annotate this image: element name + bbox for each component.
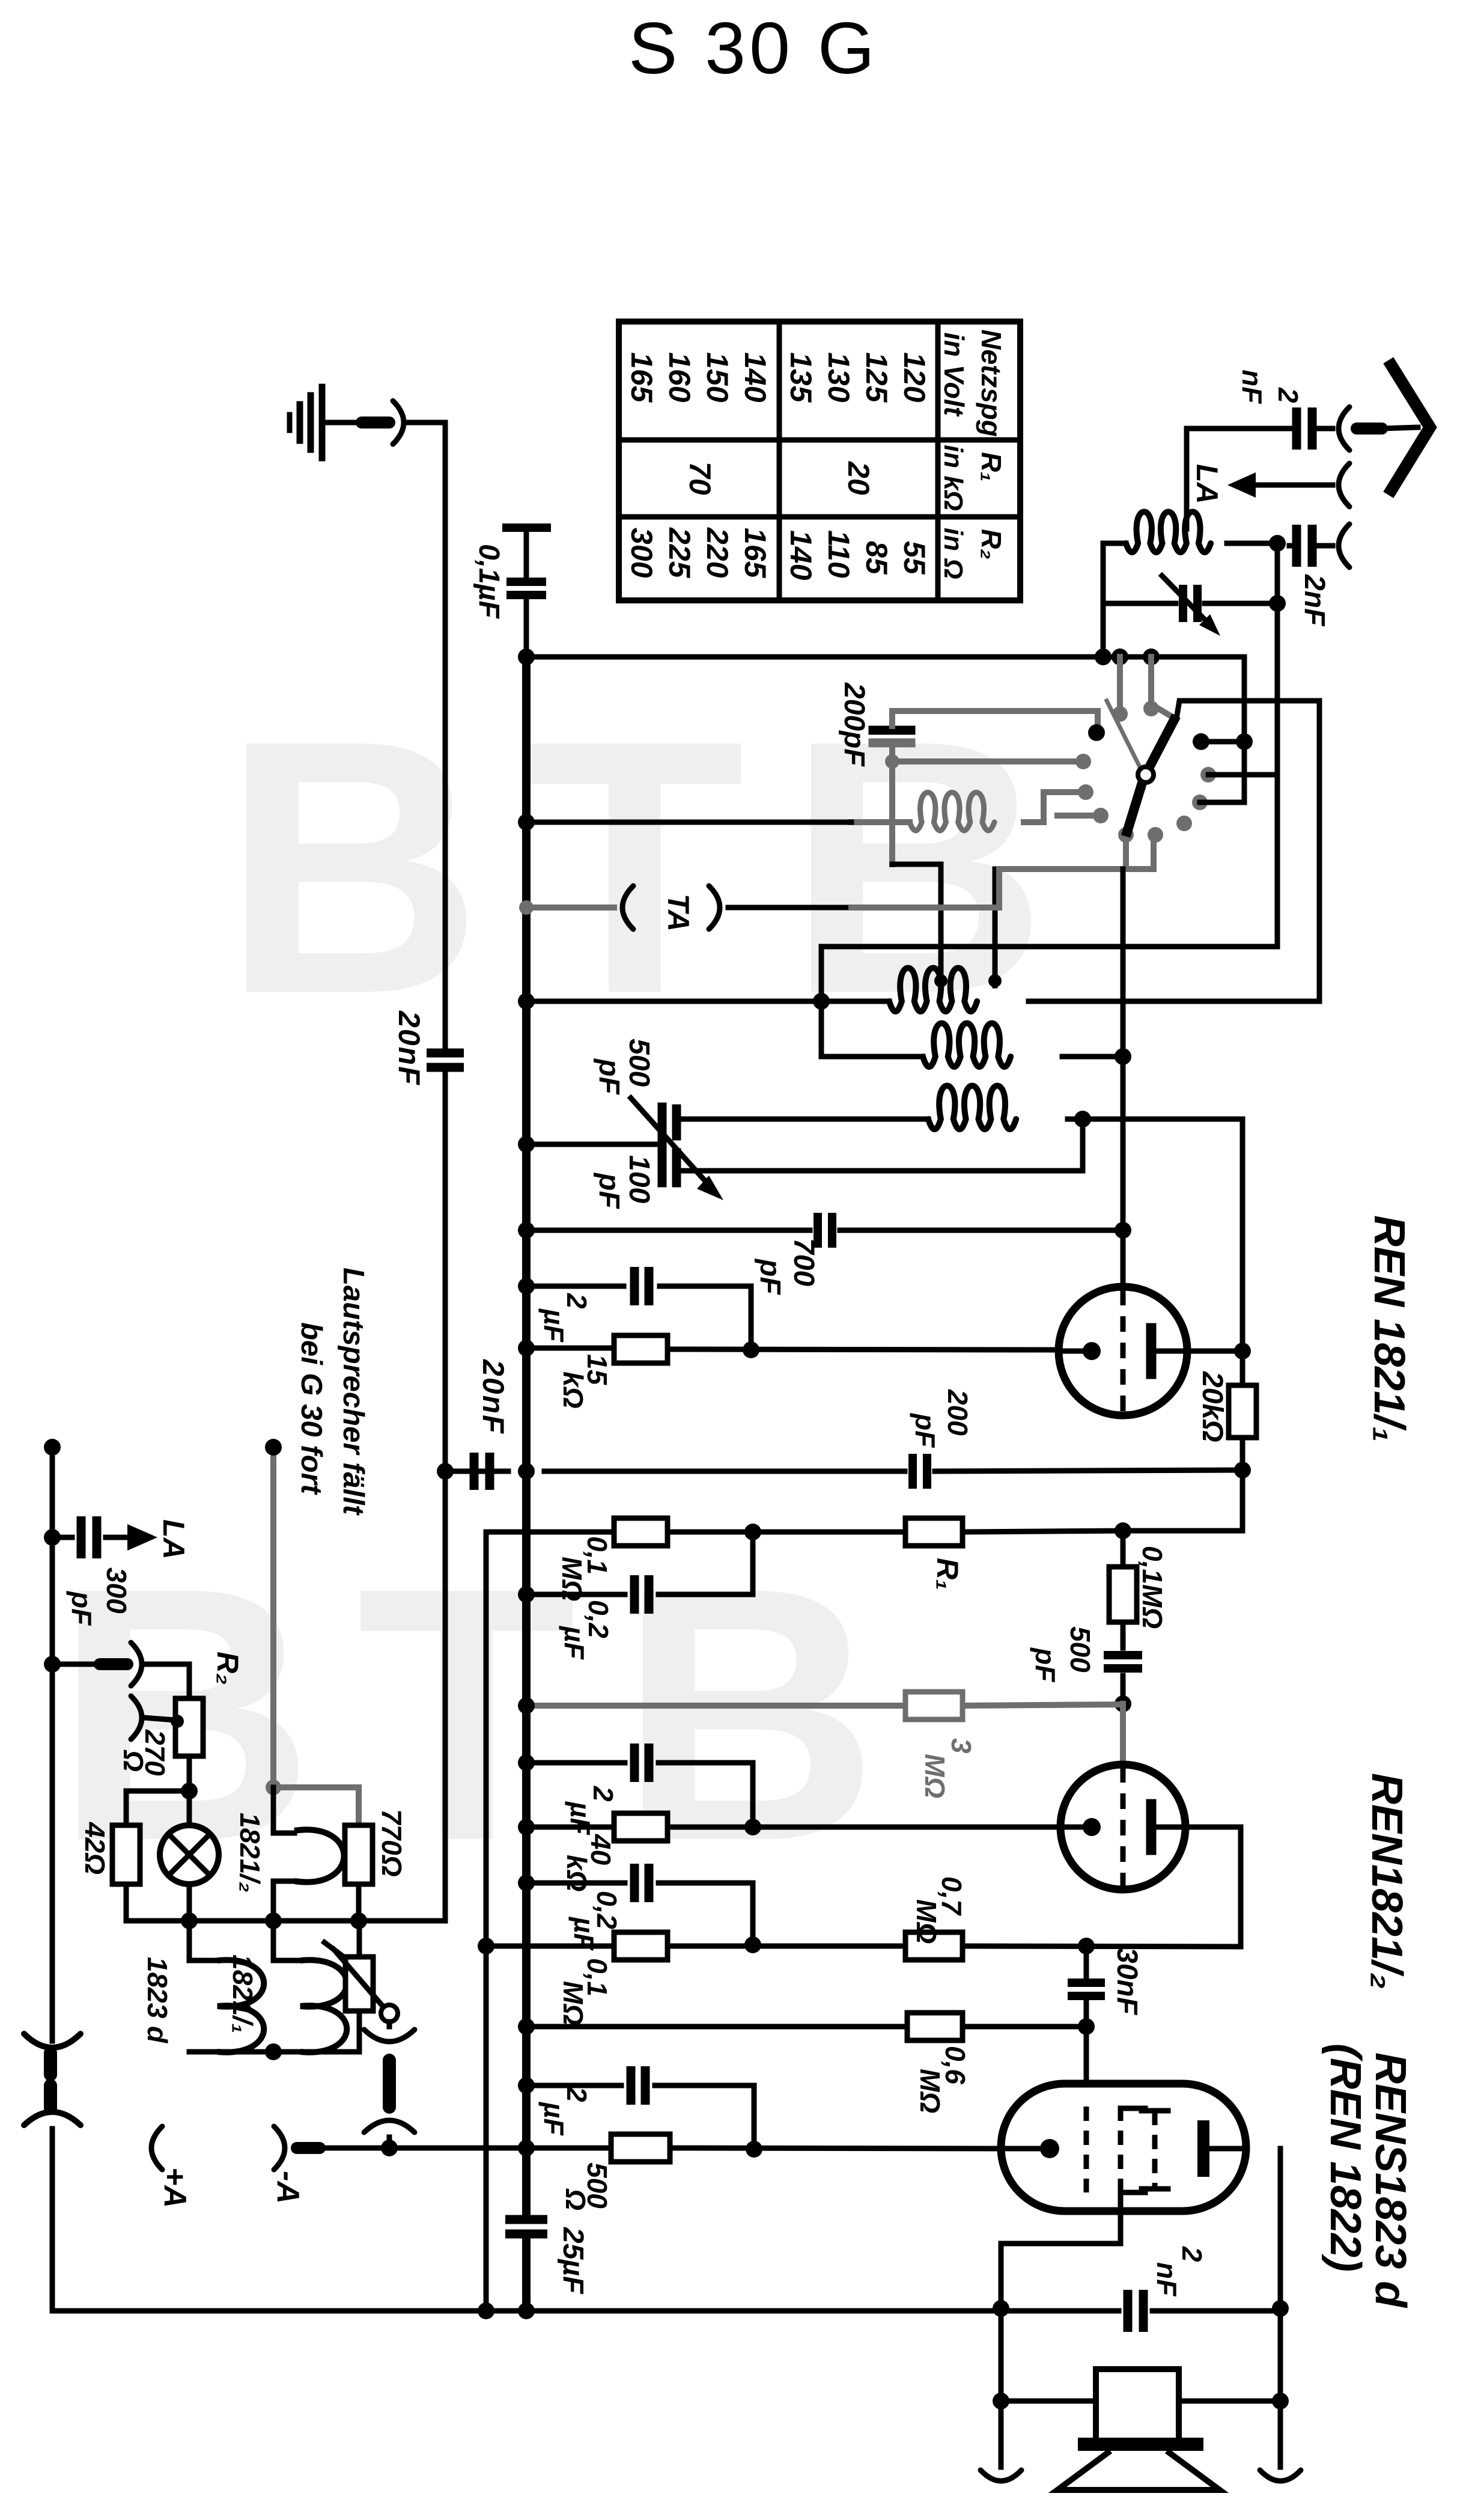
wire coil2 left lead [821, 1054, 923, 1060]
node speaker right top [1272, 2300, 1289, 2317]
capacitor 20nF (row) [474, 1453, 490, 1490]
svg-text:70: 70 [683, 462, 717, 495]
resistor 20kΩ [1229, 1385, 1256, 1438]
lamp [160, 1791, 219, 1921]
label R2 [211, 1652, 245, 1685]
trimmer capacitor antenna [1162, 576, 1220, 636]
gray wire T1 riser [1117, 657, 1123, 714]
switch contact R2 [1200, 767, 1216, 783]
tube2 anode [1151, 1804, 1184, 1850]
svg-text:pF: pF [1030, 1647, 1061, 1683]
node bus row2140 [518, 1278, 535, 1295]
wire bus to tuning cap [526, 1142, 662, 1147]
node 200pF bottom [885, 754, 899, 769]
terminal +A [151, 2126, 162, 2170]
svg-text:1821/₁: 1821/₁ [227, 1954, 258, 2033]
node bus TA [519, 900, 534, 915]
svg-text:R₁: R₁ [931, 1558, 964, 1590]
tube3 suppressor lead [1001, 2194, 1121, 2307]
resistor 15kΩ [614, 1335, 668, 1363]
wire ground to plug [322, 420, 359, 426]
node V2 junction [266, 1780, 281, 1795]
label 200 pF (row) [910, 1389, 973, 1448]
tube1 anode [1151, 1328, 1186, 1374]
gray wire V2 [270, 1447, 276, 1787]
switch contact R3 [1192, 795, 1208, 810]
svg-text:in kΩ: in kΩ [938, 445, 968, 511]
wire V3 lower [443, 1075, 448, 1921]
node tap2 [988, 974, 1002, 987]
wire tube1 anode lead [1186, 1349, 1242, 1354]
label 0,1MΩ (vertical) [1137, 1546, 1168, 1629]
svg-text:1821/₂: 1821/₂ [234, 1813, 266, 1893]
wire row 2933 [526, 1763, 753, 1827]
svg-text:2: 2 [1273, 387, 1304, 403]
wire V16 upper [1240, 1119, 1245, 1351]
wire bottom row [52, 2308, 1280, 2314]
wire V1367 [819, 947, 824, 1057]
node row2549 left [744, 1524, 761, 1540]
wire coil left to V13 [1103, 543, 1126, 657]
label 20kΩ [1196, 1371, 1228, 1442]
svg-text:RENS1823 d: RENS1823 d [1366, 2052, 1414, 2308]
terminal -A [274, 2126, 320, 2170]
label 2 nF (antenna) [1236, 370, 1304, 404]
label 770Ω [376, 1809, 407, 1877]
antenna coil LA [1126, 512, 1211, 553]
wire coil2 right to grid line [1062, 1054, 1123, 1060]
wire coil right to 2nF node [1227, 541, 1277, 546]
resistor 500Ω [611, 2134, 670, 2162]
node V16/row2448 [1234, 1462, 1251, 1478]
label LA (antenna) [1190, 464, 1224, 504]
svg-text:kΩ: kΩ [561, 1855, 592, 1892]
resistor 0,1MΩ vertical [1109, 1531, 1137, 1648]
node bus row2448 [518, 1463, 535, 1480]
node row2243/2µF [743, 1341, 759, 1358]
gray wire row 2838 [526, 1704, 1123, 1706]
svg-text:MΩ: MΩ [558, 1981, 589, 2025]
wire row 700pF [526, 1228, 1123, 1233]
svg-text:100: 100 [623, 1155, 655, 1203]
label 3 MΩ [919, 1738, 977, 1798]
node grid/700pF [1115, 1222, 1131, 1239]
svg-text:µF: µF [565, 1801, 596, 1836]
svg-text:R₂: R₂ [976, 529, 1007, 560]
node trimmer/V15 [1269, 595, 1286, 612]
node bus row1666 [518, 993, 535, 1010]
gray wire bus to TA [526, 905, 614, 911]
wire anode3 down [1278, 2149, 1283, 2467]
svg-text:(REN 1822): (REN 1822) [1321, 2043, 1369, 2272]
svg-text:135: 135 [784, 352, 818, 403]
gray wire grid2 lead [1120, 1704, 1126, 1765]
svg-text:55: 55 [898, 541, 931, 575]
plug-socket R2 [100, 1643, 142, 1686]
wire row 3040 [526, 1825, 1060, 1830]
wire 2nF node down V15 [1275, 546, 1280, 947]
wire speaker left drop [999, 2307, 1004, 2467]
svg-text:770Ω: 770Ω [376, 1809, 407, 1877]
node bus row2653 [518, 1586, 535, 1603]
svg-text:in Ω: in Ω [938, 528, 968, 579]
svg-text:µF: µF [559, 1625, 590, 1661]
wire coil3 right junction [1068, 1117, 1083, 1122]
switch contact L3 [1078, 784, 1093, 800]
node coil2/gridline [1115, 1048, 1131, 1065]
heater 1823d [189, 1921, 264, 2052]
tube1 grid (dashed) [1121, 1290, 1126, 1414]
wire row 2653 (0,2µF) [526, 1532, 753, 1594]
wire grid3 lead [1084, 2027, 1089, 2107]
wire coil3 junction down [677, 1119, 1083, 1171]
wire V5 [484, 1532, 489, 2311]
node bus row3470 [518, 2077, 535, 2094]
node bus row2933 [518, 1754, 535, 1771]
main bus vertical [522, 657, 531, 2214]
tube3 anode [1203, 2126, 1246, 2171]
capacitor 200pF (row) [913, 1454, 927, 1489]
resistor 42Ω [112, 1825, 140, 1884]
svg-text:300: 300 [625, 528, 658, 578]
node row3571/2µF [746, 2141, 762, 2158]
wire to R2 [144, 1664, 189, 1698]
label 1821/2 [234, 1813, 266, 1893]
tube2 grid (dashed) [1121, 1767, 1126, 1887]
wire 42 top [126, 1791, 189, 1825]
tube3 grid1 dashed [1084, 2107, 1089, 2192]
svg-text:S 30 G: S 30 G [628, 7, 878, 89]
capacitor 20nF (series in ground lead) [427, 1053, 464, 1067]
label 2 nF (output) [1151, 2246, 1208, 2297]
svg-text:500: 500 [623, 1039, 655, 1087]
gray wire to L2 [892, 758, 1080, 764]
capacitor 0,1µF [506, 528, 547, 657]
gray wire coil2 left lead [851, 819, 910, 825]
wire V16 lower [1240, 1438, 1245, 1530]
variable resistor (pot) [324, 1921, 383, 2052]
gray wire down to coil taps [889, 761, 895, 864]
node lamp top [181, 1783, 198, 1799]
node anode/V16 [1234, 1343, 1251, 1359]
node row3239/0,2µF [744, 1936, 761, 1953]
node grid3 [1078, 2018, 1095, 2035]
terminal socket right [1260, 2470, 1301, 2481]
label 500 pF (grid2) [1030, 1626, 1096, 1683]
wire tap2 [993, 869, 998, 986]
label 2 µF (cathode1) [538, 1293, 592, 1343]
svg-text:200: 200 [942, 1389, 973, 1436]
node lamp bottom [181, 1912, 198, 1929]
label 20nF (row) [476, 1359, 510, 1435]
switch pivot [1138, 767, 1154, 783]
label RENS1823 d [1366, 2052, 1414, 2308]
svg-text:Ω: Ω [560, 2188, 591, 2210]
tube REN1821/1 envelope [1059, 1287, 1187, 1415]
label 500 Ω [560, 2162, 613, 2210]
tube3 grid3 dashed [1142, 2111, 1168, 2189]
tube3 grid2 dashed [1121, 2107, 1145, 2194]
switch contact T2 [1143, 701, 1159, 716]
TA socket pair [622, 886, 720, 929]
svg-text:165: 165 [738, 528, 772, 579]
label (REN 1822) [1321, 2043, 1369, 2272]
watermark BTB row 2 (decorative) [54, 1513, 921, 1916]
label 0,2 µF (lower) [568, 1891, 622, 1951]
connector V1 [24, 2034, 81, 2125]
svg-text:25µF: 25µF [557, 2227, 589, 2295]
label 100 pF [593, 1155, 655, 1209]
node pot/row3571 [381, 2140, 398, 2156]
switch contact R4 [1176, 816, 1192, 831]
capacitor 0,2µF (upper) [634, 1575, 649, 1614]
label R1 [931, 1558, 964, 1590]
capacitor 200pF [873, 711, 911, 761]
svg-text:REN 1821/₁: REN 1821/₁ [1365, 1215, 1413, 1442]
node speaker left top [993, 2300, 1009, 2317]
wire row 3239 [486, 1946, 1241, 1947]
svg-text:LA: LA [157, 1519, 190, 1560]
wire row 2140 [526, 1286, 751, 1350]
antenna symbol [1391, 365, 1430, 490]
svg-text:nF: nF [1236, 370, 1268, 404]
connector pot [364, 2022, 415, 2148]
svg-text:2nF: 2nF [1298, 574, 1330, 627]
wire 2nF to coil tap [1187, 429, 1289, 529]
capacitor 2nF (output) [1128, 2290, 1143, 2332]
gray wire coil to L3 [1024, 792, 1083, 822]
wire R2 contact lead [1208, 772, 1277, 778]
label 20nF [392, 1010, 426, 1086]
gray wire B1 drop [1123, 835, 1129, 869]
switch contact B2 [1148, 827, 1163, 843]
resistor 0,1MΩ (row2549) [614, 1518, 668, 1546]
svg-text:REN1821/₂: REN1821/₂ [1363, 1773, 1411, 1989]
svg-text:Ω: Ω [118, 1750, 149, 1772]
label 500 pF [593, 1039, 655, 1095]
wire bus to V1367 [526, 999, 821, 1004]
wire tube2 anode lead [1184, 1827, 1241, 1947]
svg-text:3: 3 [946, 1738, 977, 1754]
transformer coil 1 [889, 968, 977, 1012]
capacitor 300pF [52, 1516, 126, 1558]
svg-text:pF: pF [593, 1058, 625, 1095]
node coil1 feed [813, 993, 830, 1010]
svg-text:2: 2 [1176, 2246, 1208, 2262]
switch coil (gray) [910, 793, 994, 831]
wire V2 lower [271, 1787, 276, 1830]
label 0,1µF [473, 544, 505, 619]
switch contact L2 [1075, 754, 1091, 769]
antenna plug/socket [1339, 407, 1418, 450]
svg-text:125: 125 [860, 352, 893, 403]
capacitor 700pF [818, 1213, 832, 1248]
label 25µF [557, 2227, 589, 2295]
svg-text:120: 120 [898, 352, 931, 403]
node bus row1358 [518, 814, 535, 831]
node row3040/2µF [744, 1819, 761, 1835]
wire row 3372 [526, 2024, 1086, 2030]
wire row 3470 [526, 2085, 754, 2149]
wire V12 right vertical [1317, 701, 1322, 1001]
switch rotor arm down [1127, 779, 1143, 832]
terminal socket left [981, 2470, 1021, 2481]
node T1 top [1112, 648, 1128, 665]
tube1 cathode [1059, 1342, 1101, 1360]
wire bus to switch coil [526, 820, 851, 825]
gray wire T2 riser [1151, 657, 1172, 716]
gray wire 200pF top to L1 [892, 711, 1098, 728]
wire coil3 junction up-right [1083, 1117, 1242, 1122]
loudspeaker [1057, 2369, 1220, 2490]
label TA [662, 894, 695, 932]
switch contact B1 [1118, 827, 1134, 843]
svg-text:130: 130 [822, 352, 856, 403]
label 0,7 MΩ [911, 1876, 967, 1944]
tube RENS1823d envelope [1001, 2084, 1246, 2211]
node bus row2243 [518, 1340, 535, 1356]
svg-text:500: 500 [1065, 1626, 1096, 1673]
wire 500pF feed [677, 1117, 709, 1122]
label +A [157, 2167, 192, 2208]
svg-text:BTB: BTB [222, 666, 1089, 1069]
socket 270 tap [131, 1696, 175, 1739]
note bei G 30 fort [295, 1322, 327, 1495]
resistor 0,7MΩ [905, 1932, 963, 1960]
svg-text:160: 160 [663, 352, 696, 403]
label 2nF (jack) [1298, 574, 1330, 627]
wire row 2243 [526, 1346, 614, 1351]
transformer coil 2 [923, 1024, 1011, 1067]
wire row 2549 [486, 1470, 1242, 1532]
tube3 cathode [1001, 2139, 1059, 2158]
wire trimmer row [1103, 601, 1277, 606]
main bus below 25µF [522, 2240, 531, 2311]
svg-text:kΩ: kΩ [558, 1371, 589, 1409]
switch contact T1 [1112, 706, 1128, 722]
node row3414 [265, 2043, 282, 2060]
node bus row3571 [518, 2140, 535, 2156]
capacitor 2nF antenna [1289, 407, 1333, 450]
node R2 row [44, 1656, 61, 1673]
label 1821/1 [227, 1954, 258, 2033]
resistor R2 (tapped) [175, 1698, 203, 1756]
node V2 top [265, 1439, 282, 1456]
gray wire B2 drop [1151, 835, 1157, 869]
svg-text:R₁: R₁ [976, 452, 1007, 481]
capacitor 0,2µF (lower) [634, 1864, 649, 1902]
svg-text:200pF: 200pF [838, 682, 870, 767]
svg-text:1823 d: 1823 d [142, 1957, 173, 2043]
node bus row3040 [518, 1819, 535, 1835]
wire V1 [50, 1447, 55, 2311]
wire row 3571 [318, 2148, 1001, 2149]
node coil3 junction [1074, 1111, 1091, 1127]
node bus row3372 [518, 2018, 535, 2035]
svg-text:225: 225 [663, 527, 696, 579]
resistor R1 [905, 1518, 963, 1546]
wire 42 bottom [126, 1884, 189, 1921]
svg-text:µF: µF [538, 1308, 570, 1343]
wire R2 row [52, 1662, 96, 1667]
node tap1 [934, 974, 947, 987]
label REN 1821/1 [1365, 1215, 1413, 1442]
label 0,1 MΩ (row2549) [556, 1536, 613, 1601]
svg-text:2: 2 [588, 1786, 619, 1802]
switch contact L4 [1093, 808, 1109, 823]
node 300pF row [44, 1529, 61, 1546]
svg-text:0,1µF: 0,1µF [473, 544, 505, 619]
svg-text:nF: nF [1151, 2262, 1182, 2297]
capacitor 500pF (grid2) [1104, 1655, 1142, 1704]
svg-text:85: 85 [860, 541, 893, 575]
svg-text:+A: +A [157, 2167, 192, 2208]
label 0,1 MΩ (row3239) [558, 1958, 613, 2025]
svg-text:in Volt: in Volt [938, 332, 970, 417]
switch rotor arm up [1148, 720, 1174, 770]
ground symbol [290, 387, 322, 458]
node bus bottom [518, 2302, 535, 2319]
label LA (bottom) [157, 1519, 190, 1560]
svg-text:-A: -A [270, 2171, 305, 2204]
svg-text:µF: µF [538, 2101, 570, 2137]
wire rotor to row1166 [1176, 701, 1319, 719]
resistor 0,6MΩ [907, 2013, 963, 2040]
svg-text:bei G 30 fort: bei G 30 fort [295, 1322, 327, 1495]
LA terminal arrow [1227, 463, 1349, 507]
note Lautsprecher faellt [337, 1268, 370, 1516]
node bus/row1093 [518, 648, 535, 665]
wire R1 contact lead [1201, 739, 1244, 745]
svg-text:20nF: 20nF [392, 1010, 426, 1086]
svg-text:TA: TA [662, 894, 695, 932]
node antenna-gnd junction [1095, 648, 1112, 665]
svg-text:pF: pF [754, 1258, 786, 1295]
svg-text:30nF: 30nF [1111, 1947, 1143, 2016]
heater 1821/1 [273, 1921, 347, 2052]
node T2 top [1143, 648, 1160, 665]
node V1 top [44, 1439, 61, 1456]
wire row 1093 [526, 657, 1244, 802]
wire R2 to lamp node [187, 1756, 192, 1791]
arrow LA (to antenna) [127, 1524, 157, 1551]
svg-text:42Ω: 42Ω [79, 1822, 111, 1875]
svg-text:LA: LA [1190, 464, 1224, 504]
node speaker row left [993, 2393, 1009, 2409]
label 700 pF [754, 1238, 820, 1295]
tuning capacitor 500pF/100pF [631, 1098, 723, 1200]
svg-text:Lautsprecher fällt: Lautsprecher fällt [337, 1268, 370, 1516]
svg-text:2: 2 [561, 2086, 592, 2102]
wire row 3414 [189, 2049, 359, 2055]
wire V16 to 20k [1240, 1351, 1245, 1385]
resistor 770Ω [345, 1825, 373, 1884]
resistor 0,1MΩ (row3239) [614, 1932, 668, 1960]
node tap R2 [171, 1715, 184, 1728]
label 0,2 µF (upper) [559, 1600, 614, 1661]
svg-text:140: 140 [784, 530, 818, 581]
table Netzspg/R1/R2 [619, 322, 1020, 600]
svg-text:220: 220 [701, 527, 734, 578]
capacitor 2µF cathode2 [634, 1744, 649, 1782]
svg-text:110: 110 [822, 530, 856, 578]
capacitor 25µF (series in bus) [505, 2219, 547, 2234]
node bus row1904 [518, 1136, 535, 1153]
label 40 kΩ [561, 1834, 616, 1892]
node grid2 top [1115, 1522, 1131, 1539]
node bus row3133 [518, 1875, 535, 1891]
wire row 3133 [526, 1883, 753, 1945]
